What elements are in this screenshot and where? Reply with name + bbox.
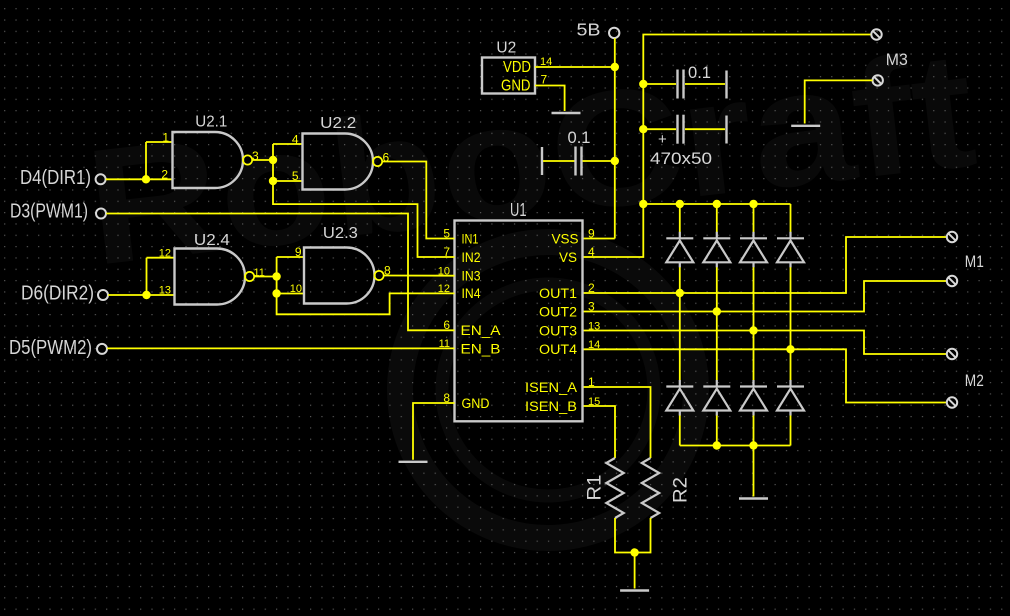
connector M2 pin1: [947, 349, 957, 359]
svg-text:D3(PWM1): D3(PWM1): [10, 199, 88, 222]
wire diode column 3: [753, 204, 755, 232]
wire to U2.2 pin5: [273, 180, 303, 182]
svg-text:M1: M1: [965, 253, 984, 271]
connector M3 pin1: [871, 29, 881, 39]
wire diode column 4: [790, 204, 792, 232]
wire U2.4out column to IN4: [277, 257, 455, 314]
capacitor C 0.1 (near U1): [541, 147, 543, 175]
wire U1 GND to ground: [413, 403, 455, 460]
wire M3 pin2 to ground: [805, 80, 873, 123]
svg-text:R1: R1: [585, 475, 606, 501]
wire U2.4 out: [254, 276, 276, 278]
svg-text:4: 4: [292, 132, 299, 146]
node junction D4: [142, 175, 150, 183]
node junction OUT4/col4: [786, 345, 794, 353]
wire D3 to EN_A: [106, 214, 454, 331]
wire D5 to EN_B: [107, 347, 454, 349]
svg-text:M3: M3: [886, 51, 908, 69]
svg-text:U2.1: U2.1: [195, 114, 227, 131]
svg-text:IN4: IN4: [462, 286, 481, 301]
svg-text:GND: GND: [462, 396, 490, 411]
svg-text:14: 14: [588, 339, 600, 351]
svg-text:GND: GND: [501, 78, 531, 95]
svg-text:15: 15: [588, 396, 600, 408]
wire OUT3 to M2: [583, 331, 948, 355]
svg-text:D5(PWM2): D5(PWM2): [9, 336, 92, 359]
nand gate U2.2: [303, 134, 383, 190]
svg-text:ISEN_B: ISEN_B: [525, 399, 577, 414]
svg-text:3: 3: [588, 299, 595, 313]
node junction OUT2/col2: [713, 307, 721, 315]
node junction U2.1out/pin4: [269, 156, 277, 164]
connector M1 pin2: [947, 276, 957, 286]
svg-text:U2.3: U2.3: [323, 225, 358, 242]
node junction bottom/col2: [713, 441, 721, 449]
wire ISEN_A to R2: [583, 387, 651, 458]
wire to U2.3 pin9: [277, 256, 304, 258]
node junction rail/col3: [749, 200, 757, 208]
nand gate U2.3: [304, 248, 384, 304]
wire top diode rail: [643, 203, 790, 205]
wire ISEN_B to R1: [583, 406, 616, 458]
svg-text:VS: VS: [559, 250, 577, 265]
diode D4: [777, 232, 804, 267]
svg-text:U1: U1: [510, 199, 527, 220]
op-amp U1 driver box: [455, 221, 583, 422]
node junction D6: [142, 291, 150, 299]
diode D8: [777, 380, 804, 416]
connector M3 pin2: [873, 75, 883, 85]
svg-text:IN2: IN2: [462, 250, 481, 265]
node junction VS/C2: [639, 125, 647, 133]
diode D7: [740, 380, 767, 416]
ground U1: [399, 461, 428, 463]
svg-text:D4(DIR1): D4(DIR1): [20, 166, 91, 189]
svg-text:ISEN_A: ISEN_A: [525, 380, 577, 395]
wire D6 to U2.4: [108, 294, 174, 296]
svg-text:VDD: VDD: [503, 59, 531, 76]
node junction OUT1/col1: [676, 289, 684, 297]
svg-text:OUT2: OUT2: [539, 304, 577, 319]
nand gate U2.4: [175, 249, 255, 305]
ground diode bridge: [739, 498, 768, 500]
ground M3: [791, 125, 820, 127]
ground U2: [552, 112, 581, 114]
wire OUT4 to M2: [583, 349, 948, 402]
svg-text:U2.2: U2.2: [320, 115, 356, 132]
svg-text:M2: M2: [965, 372, 984, 390]
wire U2 pin7 to ground: [535, 86, 565, 112]
connector M1 pin1: [947, 232, 957, 242]
svg-text:9: 9: [588, 226, 595, 240]
capacitor C 470x50 polarized: [643, 128, 676, 130]
node junction VS/C1: [639, 80, 647, 88]
svg-text:9: 9: [295, 245, 302, 259]
svg-text:D6(DIR2): D6(DIR2): [21, 282, 94, 305]
svg-text:12: 12: [159, 248, 171, 260]
wire OUT1 to M1: [583, 237, 948, 293]
node junction R1/R2: [630, 548, 638, 556]
svg-text:U2.4: U2.4: [194, 232, 230, 249]
node junction OUT3/col3: [749, 326, 757, 334]
node junction pin10: [272, 289, 280, 297]
capacitor C 0.1 (top right): [643, 83, 676, 85]
svg-text:14: 14: [540, 56, 552, 68]
wire U2.2 out to IN1: [382, 162, 454, 239]
svg-text:IN1: IN1: [462, 231, 479, 246]
wire U2.3 out to IN3: [384, 275, 455, 277]
svg-text:5: 5: [292, 169, 299, 183]
nand gate U2.1: [173, 132, 253, 188]
svg-text:0.1: 0.1: [568, 129, 591, 147]
svg-text:OUT3: OUT3: [539, 323, 577, 338]
diode D3: [740, 232, 767, 267]
node junction VS/diode rail: [639, 200, 647, 208]
node junction 5B/C-0.1: [611, 157, 619, 165]
wire 5B rail down to VSS: [614, 38, 616, 238]
svg-text:13: 13: [159, 285, 171, 297]
svg-text:2: 2: [588, 281, 595, 295]
wire R2 bottom: [635, 518, 651, 553]
svg-text:0.1: 0.1: [688, 64, 711, 82]
wire R1 bottom: [615, 518, 635, 553]
wire OUT2 to M1: [583, 281, 948, 312]
svg-text:1: 1: [588, 375, 595, 389]
svg-text:1: 1: [162, 131, 169, 145]
wire U2.1out column: [273, 144, 455, 257]
wire U2 pin14 to 5B rail: [535, 66, 615, 68]
node junction pin5: [269, 177, 277, 185]
svg-text:EN_A: EN_A: [461, 323, 501, 338]
svg-text:OUT1: OUT1: [539, 286, 577, 301]
diode D2: [703, 232, 730, 267]
resistor R1: [606, 458, 623, 518]
wire U2.1 out: [252, 159, 273, 161]
wire to U2.3 pin10: [277, 293, 304, 295]
svg-text:7: 7: [541, 73, 548, 87]
wire bottom diode rail: [680, 445, 791, 447]
svg-text:470x50: 470x50: [650, 149, 712, 168]
wire bottom rail to ground: [753, 446, 755, 497]
ground R1R2: [620, 590, 649, 592]
svg-text:+: +: [658, 131, 667, 148]
svg-text:R2: R2: [671, 477, 692, 503]
wire D4 to U2.1: [106, 178, 173, 180]
node junction bottom/col3: [749, 441, 757, 449]
wire diode column 2: [716, 204, 718, 232]
svg-text:10: 10: [290, 283, 302, 295]
connector M2 pin2: [947, 397, 957, 407]
svg-text:OUT4: OUT4: [539, 342, 578, 357]
node junction 5B/VDD: [611, 63, 619, 71]
node junction U2.4out: [272, 272, 280, 280]
node junction rail/col1: [676, 200, 684, 208]
svg-text:2: 2: [161, 167, 168, 181]
svg-text:IN3: IN3: [462, 268, 481, 283]
wire VSS pin9: [583, 238, 615, 240]
node junction rail/col2: [713, 200, 721, 208]
resistor R2: [642, 458, 659, 518]
svg-text:4: 4: [588, 245, 595, 259]
op-amp U2 power box: [482, 58, 535, 94]
wire VS pin4 to rail: [583, 35, 872, 258]
wire to U2.2 pin4: [273, 143, 303, 145]
diode D1: [666, 232, 693, 267]
svg-text:EN_B: EN_B: [461, 341, 501, 356]
svg-text:5B: 5B: [577, 20, 601, 40]
diode D5: [666, 380, 693, 416]
node 5B connector: [609, 28, 619, 38]
svg-text:U2: U2: [496, 40, 516, 57]
wire junction to ground: [634, 553, 636, 589]
svg-text:13: 13: [588, 320, 600, 332]
svg-text:VSS: VSS: [552, 231, 579, 246]
diode D6: [703, 380, 730, 416]
wire diode column 1: [679, 204, 681, 232]
watermark stamp ring: [400, 242, 696, 538]
